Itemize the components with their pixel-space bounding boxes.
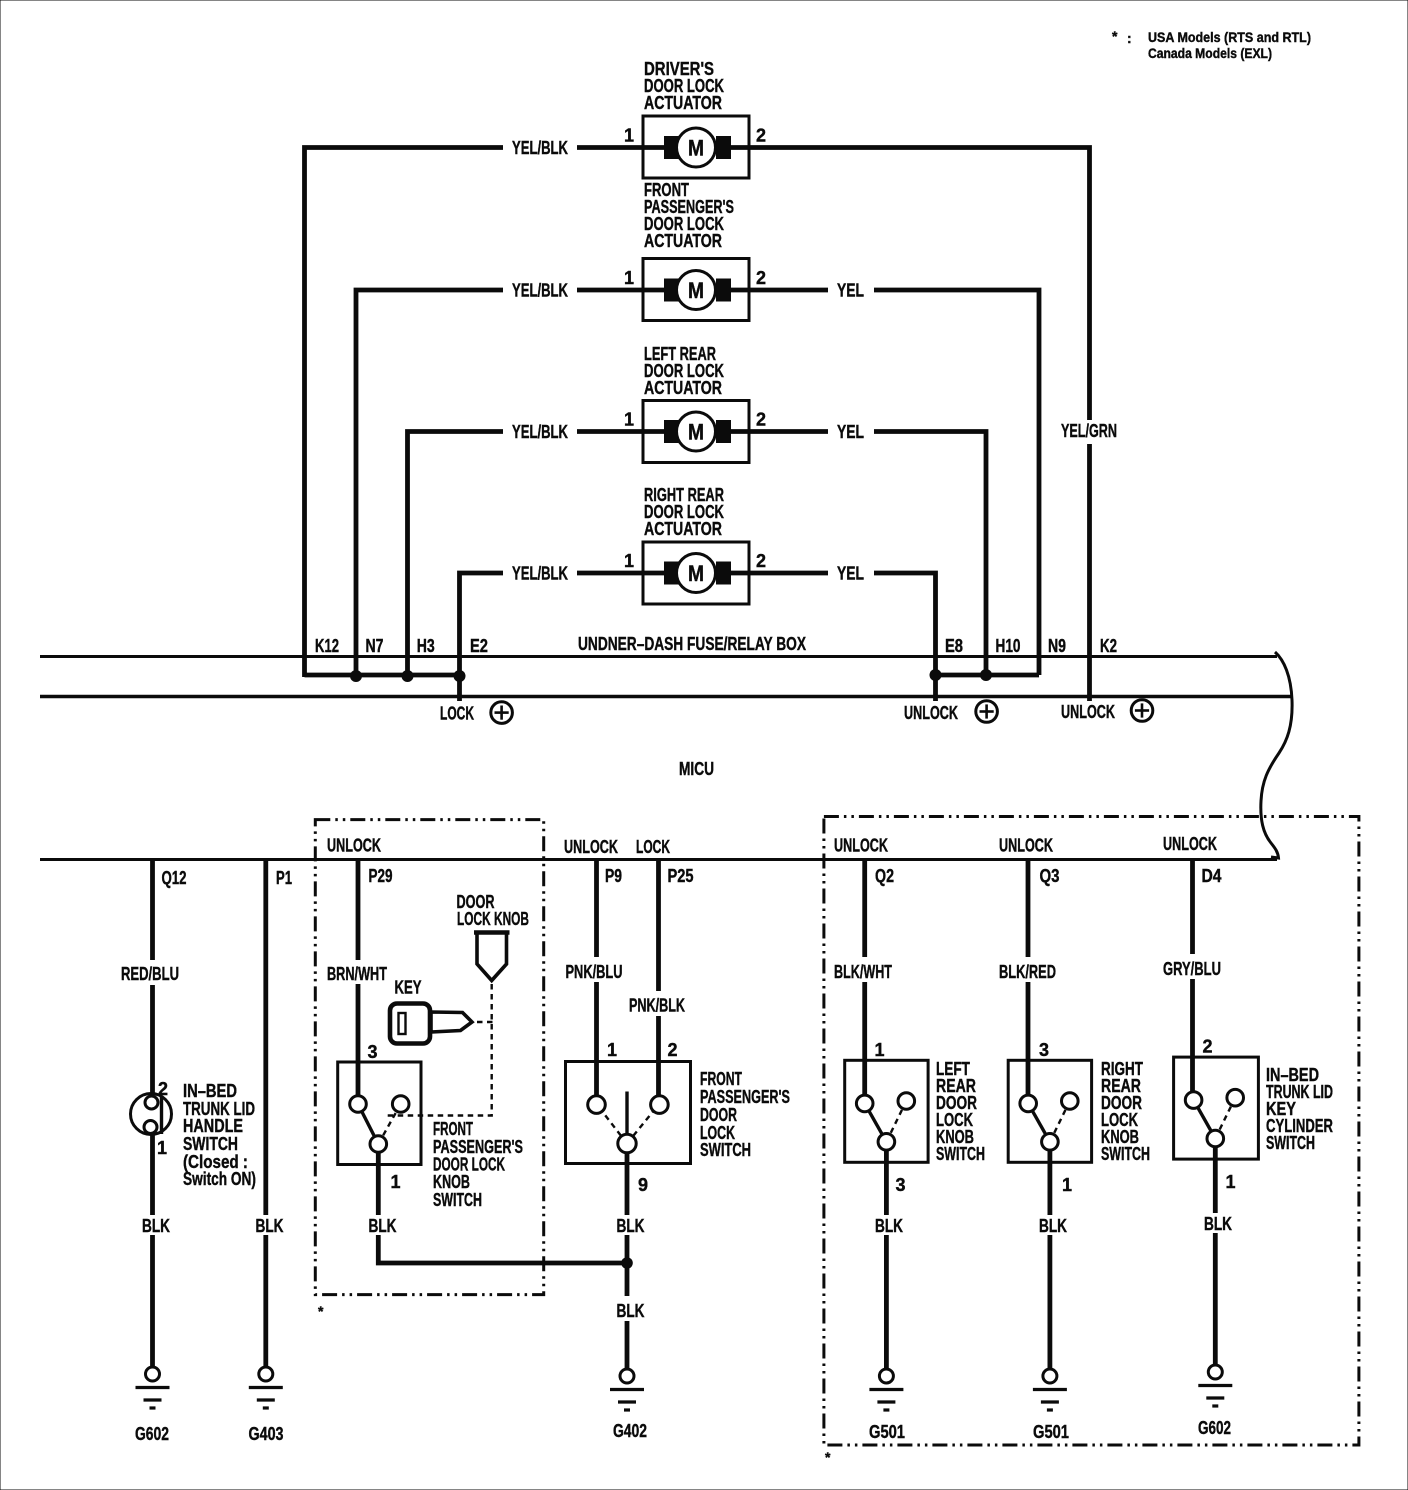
- switch S3 front passenger's door lock switch: [566, 1062, 691, 1164]
- wire YEL from M3 pin2 to H10: [749, 422, 986, 675]
- svg-text:2: 2: [158, 1079, 168, 1099]
- svg-text:PNK/BLU: PNK/BLU: [566, 962, 623, 982]
- label of S1: [183, 1081, 256, 1189]
- svg-text:IN–BED: IN–BED: [183, 1081, 237, 1101]
- svg-text:1: 1: [624, 551, 634, 571]
- wire YEL/GRN from M1 pin2 to K2: [749, 148, 1117, 702]
- wire YEL from M2 pin2 to N9: [749, 281, 1039, 676]
- svg-text:1: 1: [157, 1138, 167, 1158]
- svg-text:1: 1: [875, 1040, 885, 1060]
- svg-text:UNLOCK: UNLOCK: [327, 836, 381, 856]
- svg-text:SWITCH: SWITCH: [1101, 1144, 1150, 1164]
- dashed option box (front passenger door lock knob switch): [315, 820, 543, 1295]
- svg-text:UNLOCK: UNLOCK: [999, 836, 1053, 856]
- svg-text:YEL: YEL: [837, 422, 864, 442]
- ground G501 right: [1033, 1369, 1069, 1442]
- svg-text:Switch ON): Switch ON): [183, 1169, 256, 1189]
- svg-text:N9: N9: [1048, 636, 1066, 656]
- svg-text:ACTUATOR: ACTUATOR: [644, 519, 722, 539]
- svg-text:LOCK: LOCK: [636, 837, 670, 857]
- svg-text:RED/BLU: RED/BLU: [121, 964, 179, 984]
- svg-text:UNLOCK: UNLOCK: [1061, 702, 1115, 722]
- svg-text:SWITCH: SWITCH: [700, 1140, 751, 1160]
- svg-text:UNLOCK: UNLOCK: [1163, 834, 1217, 854]
- svg-text:1: 1: [607, 1040, 617, 1060]
- svg-text:LOCK KNOB: LOCK KNOB: [457, 909, 529, 929]
- svg-text:1: 1: [624, 268, 634, 288]
- internal lock bus wire: [305, 673, 460, 678]
- svg-text:2: 2: [756, 551, 766, 571]
- svg-text:HANDLE: HANDLE: [183, 1116, 243, 1136]
- svg-text:MICU: MICU: [679, 759, 714, 779]
- svg-text:KEY: KEY: [395, 978, 422, 998]
- svg-text:BLK: BLK: [617, 1301, 645, 1321]
- svg-text:G402: G402: [613, 1421, 647, 1441]
- svg-text:P1: P1: [276, 868, 292, 888]
- wire YEL/BLK to M4 pin1 from E2: [460, 564, 644, 702]
- junction node H10 bus: [980, 669, 992, 681]
- motor M2 front passenger's door lock actuator: [643, 180, 749, 321]
- wire BLK/WHT from Q2 to left rear knob switch: [834, 861, 892, 1095]
- svg-text:DOOR: DOOR: [700, 1105, 737, 1125]
- svg-text:SWITCH: SWITCH: [183, 1134, 238, 1154]
- wire YEL/BLK to M2 pin1 from N7: [356, 281, 643, 678]
- svg-text:USA Models (RTS and RTL): USA Models (RTS and RTL): [1148, 29, 1311, 45]
- label of S2: [433, 1119, 523, 1210]
- svg-text:BLK: BLK: [1204, 1214, 1232, 1234]
- svg-text:*: *: [825, 1449, 831, 1465]
- svg-text:1: 1: [1226, 1172, 1236, 1192]
- svg-text:LOCK: LOCK: [440, 704, 474, 724]
- svg-text:M: M: [688, 561, 704, 586]
- svg-text:YEL: YEL: [837, 564, 864, 584]
- label of S5: [1101, 1059, 1150, 1164]
- junction node H3 bus: [402, 670, 414, 682]
- svg-text:M: M: [688, 278, 704, 303]
- svg-text:G602: G602: [1198, 1418, 1231, 1438]
- svg-text:SWITCH: SWITCH: [936, 1144, 985, 1164]
- svg-text:BLK: BLK: [1039, 1216, 1067, 1236]
- svg-text:H10: H10: [996, 636, 1021, 656]
- door lock knob symbol: [474, 933, 510, 981]
- svg-text:BLK: BLK: [875, 1216, 903, 1236]
- wire BRN/WHT from P29 to knob switch: [327, 861, 387, 1096]
- junction node BLK: [621, 1257, 633, 1269]
- svg-text:P25: P25: [668, 866, 694, 886]
- svg-text:D4: D4: [1202, 866, 1222, 886]
- wire BLK from S5 to G501: [1039, 1150, 1067, 1369]
- wire BLK from S1 to G602: [142, 1134, 170, 1368]
- switch S2 front passenger's door lock knob switch: [338, 1062, 421, 1165]
- svg-text:E8: E8: [945, 636, 963, 656]
- motor M3 left rear door lock actuator: [643, 344, 749, 463]
- node UNLOCK driver output 1: [904, 701, 997, 723]
- wire YEL from M4 pin2 to E8: [749, 564, 936, 702]
- svg-text:BLK/WHT: BLK/WHT: [834, 962, 892, 982]
- svg-text:BLK: BLK: [142, 1216, 170, 1236]
- svg-text:9: 9: [638, 1175, 648, 1195]
- svg-text:2: 2: [756, 126, 766, 146]
- svg-text:YEL/BLK: YEL/BLK: [512, 138, 568, 158]
- svg-text:KNOB: KNOB: [433, 1172, 470, 1192]
- svg-text:1: 1: [624, 126, 634, 146]
- svg-text:3: 3: [368, 1042, 378, 1062]
- svg-text:YEL/BLK: YEL/BLK: [512, 422, 568, 442]
- motor M4 right rear door lock actuator: [643, 485, 749, 604]
- svg-text:H3: H3: [417, 636, 435, 656]
- svg-text:P9: P9: [605, 866, 622, 886]
- under-dash fuse/relay box bottom edge (MICU bottom): [40, 858, 1277, 861]
- wire BLK/RED from Q3 to right rear knob switch: [999, 861, 1056, 1095]
- svg-text:K2: K2: [1100, 636, 1117, 656]
- svg-text:2: 2: [756, 268, 766, 288]
- svg-text:E2: E2: [470, 636, 488, 656]
- svg-text:*: *: [1112, 28, 1118, 44]
- svg-text:1: 1: [624, 410, 634, 430]
- svg-text:YEL/BLK: YEL/BLK: [512, 564, 568, 584]
- svg-text:YEL/GRN: YEL/GRN: [1061, 421, 1117, 441]
- wire GRY/BLU from D4 to key cylinder switch: [1163, 861, 1221, 1092]
- key symbol: [390, 1004, 472, 1044]
- svg-text:G501: G501: [1033, 1422, 1069, 1442]
- junction node E2 bus: [454, 670, 466, 682]
- torn edge of fuse/relay box: [1261, 652, 1292, 858]
- svg-text:G501: G501: [869, 1422, 905, 1442]
- svg-text:UNLOCK: UNLOCK: [904, 703, 958, 723]
- svg-text:GRY/BLU: GRY/BLU: [1163, 959, 1221, 979]
- label of S4: [936, 1059, 985, 1164]
- ground G602 right: [1198, 1365, 1232, 1438]
- wire BLK from S3 down: [617, 1153, 645, 1297]
- wire YEL/BLK to M1 pin1 from K12: [305, 138, 644, 677]
- svg-text:Q2: Q2: [875, 866, 894, 886]
- svg-text:FRONT: FRONT: [433, 1119, 473, 1139]
- svg-text:BLK: BLK: [617, 1216, 645, 1236]
- svg-text:FRONT: FRONT: [700, 1069, 742, 1089]
- node LOCK driver output: [440, 702, 512, 724]
- svg-text:UNLOCK: UNLOCK: [564, 837, 618, 857]
- ground G403: [249, 1367, 284, 1444]
- svg-text:Q12: Q12: [162, 868, 187, 888]
- under-dash fuse/relay box inner edge: [40, 695, 1291, 699]
- svg-text::: :: [1127, 30, 1132, 46]
- svg-text:ACTUATOR: ACTUATOR: [644, 93, 722, 113]
- svg-text:YEL: YEL: [837, 281, 864, 301]
- svg-text:K12: K12: [315, 636, 339, 656]
- svg-text:ACTUATOR: ACTUATOR: [644, 378, 722, 398]
- ground G501 left: [869, 1369, 905, 1442]
- svg-text:2: 2: [668, 1040, 678, 1060]
- svg-text:M: M: [688, 136, 704, 161]
- note: model applicability: [1112, 28, 1311, 61]
- svg-text:M: M: [688, 420, 704, 445]
- svg-text:BRN/WHT: BRN/WHT: [327, 964, 387, 984]
- svg-text:YEL/BLK: YEL/BLK: [512, 281, 568, 301]
- svg-text:N7: N7: [366, 636, 384, 656]
- svg-text:*: *: [318, 1303, 324, 1319]
- label of S3: [700, 1069, 790, 1160]
- svg-text:2: 2: [1203, 1037, 1213, 1057]
- svg-text:P29: P29: [369, 866, 393, 886]
- svg-text:Q3: Q3: [1040, 866, 1060, 886]
- node UNLOCK driver output 2: [1061, 700, 1153, 722]
- switch S6 in-bed trunk lid key cylinder switch: [1174, 1057, 1259, 1159]
- svg-text:Canada Models (EXL): Canada Models (EXL): [1148, 45, 1272, 61]
- wire BLK from S2 to junction: [369, 1152, 628, 1263]
- svg-text:SWITCH: SWITCH: [433, 1190, 482, 1210]
- svg-text:1: 1: [391, 1172, 401, 1192]
- wire RED/BLU from Q12 to trunk lid handle switch: [121, 861, 179, 1094]
- ground G402: [610, 1369, 647, 1441]
- svg-text:G403: G403: [249, 1424, 284, 1444]
- svg-text:PASSENGER'S: PASSENGER'S: [700, 1087, 790, 1107]
- label of S6: [1266, 1065, 1333, 1153]
- svg-text:ACTUATOR: ACTUATOR: [644, 231, 722, 251]
- wire PNK/BLU from P9 to door lock switch: [566, 861, 623, 1096]
- dashed option box (rear knob switches and key cylinder switch): [824, 817, 1359, 1446]
- wire PNK/BLK from P25 to door lock switch: [629, 861, 685, 1096]
- internal unlock bus wire: [936, 673, 1040, 678]
- dashed link knob to switch: [385, 984, 492, 1116]
- junction node E8 bus: [930, 669, 942, 681]
- switch S1 in-bed trunk lid handle switch: [131, 1094, 172, 1135]
- wire BLK to G402: [617, 1301, 645, 1369]
- svg-text:3: 3: [896, 1175, 906, 1195]
- svg-text:BLK/RED: BLK/RED: [999, 962, 1056, 982]
- svg-text:BLK: BLK: [256, 1216, 284, 1236]
- svg-text:G602: G602: [135, 1424, 169, 1444]
- label DOOR LOCK KNOB: [457, 892, 530, 929]
- svg-text:BLK: BLK: [369, 1216, 397, 1236]
- svg-text:UNLOCK: UNLOCK: [834, 836, 888, 856]
- svg-text:UNDNER–DASH FUSE/RELAY BOX: UNDNER–DASH FUSE/RELAY BOX: [578, 634, 806, 654]
- under-dash fuse/relay box top edge: [40, 655, 1277, 658]
- svg-text:1: 1: [1062, 1175, 1072, 1195]
- svg-text:3: 3: [1039, 1040, 1049, 1060]
- ground G602: [135, 1367, 170, 1444]
- junction node N7 bus: [350, 670, 362, 682]
- motor M1 driver's door lock actuator: [643, 59, 749, 178]
- svg-text:PNK/BLK: PNK/BLK: [629, 996, 685, 1016]
- wire BLK from S4 to G501: [875, 1150, 903, 1369]
- svg-text:2: 2: [756, 410, 766, 430]
- wire BLK from S6 to G602: [1204, 1147, 1232, 1365]
- wire YEL/BLK to M3 pin1 from H3: [408, 422, 644, 677]
- switch S5 right rear door lock knob switch: [1008, 1060, 1091, 1162]
- switch S4 left rear door lock knob switch: [845, 1060, 928, 1162]
- svg-text:SWITCH: SWITCH: [1266, 1133, 1315, 1153]
- dashed link key to knob line: [477, 1021, 493, 1023]
- wire BLK from P1 to G403: [256, 861, 284, 1368]
